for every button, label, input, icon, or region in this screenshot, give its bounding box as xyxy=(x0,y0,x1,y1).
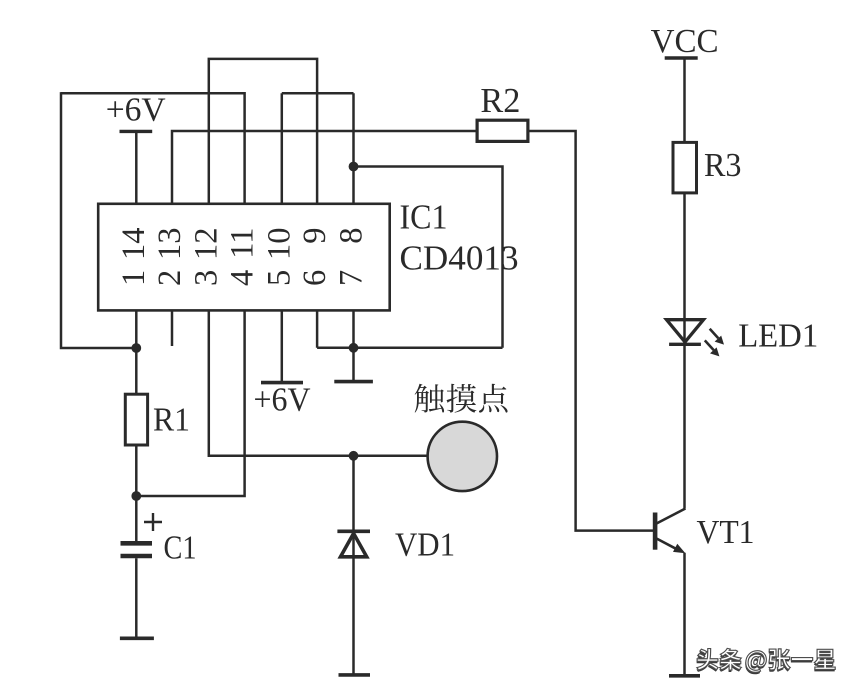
transistor VT1 base bar xyxy=(653,513,658,550)
svg-text:VT1: VT1 xyxy=(697,514,755,551)
power +6V top bar xyxy=(120,130,153,133)
wire pin 2 stub xyxy=(171,310,174,346)
svg-text:C1: C1 xyxy=(164,530,197,567)
ground bar below VD1 xyxy=(339,673,371,677)
svg-text:VCC: VCC xyxy=(651,23,719,60)
svg-text:1: 1 xyxy=(116,270,152,286)
capacitor C1 plates xyxy=(121,543,153,556)
svg-text:R1: R1 xyxy=(153,402,190,439)
svg-text:14: 14 xyxy=(116,228,152,261)
wire pin 5 down to +6V bar xyxy=(281,310,284,381)
svg-text:R3: R3 xyxy=(704,147,742,184)
svg-text:9: 9 xyxy=(297,228,333,244)
IC1 body rectangle xyxy=(98,204,390,311)
LED1 triangle xyxy=(667,320,704,342)
node A: left rail / pin1 junction xyxy=(131,343,141,353)
wire R2 to VT1 base xyxy=(528,131,653,531)
svg-text:3: 3 xyxy=(189,270,225,286)
wire VD1 branch down through diode to ground xyxy=(352,456,355,674)
svg-text:4: 4 xyxy=(224,270,260,286)
rail bar below pin 7 xyxy=(334,380,373,384)
svg-text:12: 12 xyxy=(189,228,225,261)
wire top horizontal: pin 10 to pin 8 column xyxy=(282,93,354,204)
node E: touch line / VD1 junction xyxy=(349,451,359,461)
LED1 cathode bar xyxy=(669,343,701,346)
svg-text:8: 8 xyxy=(333,228,369,244)
LED1 arrowheads xyxy=(715,336,724,345)
node C: pin8 / feedback loop junction xyxy=(349,162,359,172)
wire pin 4 down and left to R1-C1 node xyxy=(136,310,244,496)
node B: R1/C1/pin4 junction xyxy=(131,491,141,501)
watermark 头条@张一星 xyxy=(696,648,835,674)
svg-text:7: 7 xyxy=(333,270,369,286)
svg-text:R2: R2 xyxy=(480,81,520,120)
svg-text:LED1: LED1 xyxy=(738,318,818,355)
wire feedback loop pin8 right side xyxy=(354,167,503,348)
svg-text:13: 13 xyxy=(152,228,188,261)
svg-text:5: 5 xyxy=(262,270,298,286)
svg-text:IC1: IC1 xyxy=(400,198,448,237)
svg-text:VD1: VD1 xyxy=(395,527,455,564)
svg-text:10: 10 xyxy=(262,228,298,261)
svg-text:+6V: +6V xyxy=(254,382,311,419)
resistor R2 xyxy=(477,120,528,141)
transistor VT1 emitter diagonal xyxy=(657,539,678,550)
power VCC bar xyxy=(665,56,698,59)
resistor R1 xyxy=(125,394,147,445)
wire C1 to ground xyxy=(135,558,138,637)
diode VD1 triangle xyxy=(341,533,367,556)
wire loop bottom / pin 6 to pin 7 node xyxy=(317,310,502,347)
wire +6V stem to pin 14 xyxy=(135,131,138,203)
node D: pin7 / loop bottom junction xyxy=(349,343,359,353)
capacitor C1 polarity plus sign xyxy=(144,513,162,531)
wire R1 to C1 xyxy=(135,445,138,542)
svg-text:+6V: +6V xyxy=(106,92,166,129)
power +6V bottom bar at pin 5 xyxy=(261,381,303,385)
wire pin 7 down to rail bar xyxy=(352,310,355,380)
wire left rail from +6V row down to R1 top node xyxy=(61,92,136,348)
transistor VT1 emitter arrowhead xyxy=(673,544,685,553)
touch point label 触摸点 xyxy=(415,384,508,413)
touch point pad circle xyxy=(428,422,497,491)
LED1 emission arrow lines xyxy=(705,329,719,350)
ground bar below VT1 emitter xyxy=(669,674,700,678)
svg-text:6: 6 xyxy=(297,270,333,286)
wire pin 1 down to R1 xyxy=(135,310,138,395)
svg-text:CD4013: CD4013 xyxy=(400,239,519,278)
svg-text:2: 2 xyxy=(152,270,188,286)
wire VT1 emitter to ground xyxy=(683,553,686,674)
wire bracket joining pin 12 and pin 9 xyxy=(209,59,317,204)
wire R3 through LED down to VT1 collector xyxy=(683,193,686,509)
wire VCC to R3 xyxy=(683,58,686,142)
transistor VT1 collector diagonal xyxy=(657,509,686,524)
wire top horizontal: left rail to pin 11 xyxy=(61,93,245,204)
wire pin 13 up and right to R2 xyxy=(172,131,477,204)
wire pin 3 down then right to touch point xyxy=(209,310,428,455)
resistor R3 xyxy=(673,142,697,193)
diode VD1 cathode bar xyxy=(337,529,370,533)
svg-text:11: 11 xyxy=(224,228,260,259)
ground bar below C1 xyxy=(120,636,154,640)
